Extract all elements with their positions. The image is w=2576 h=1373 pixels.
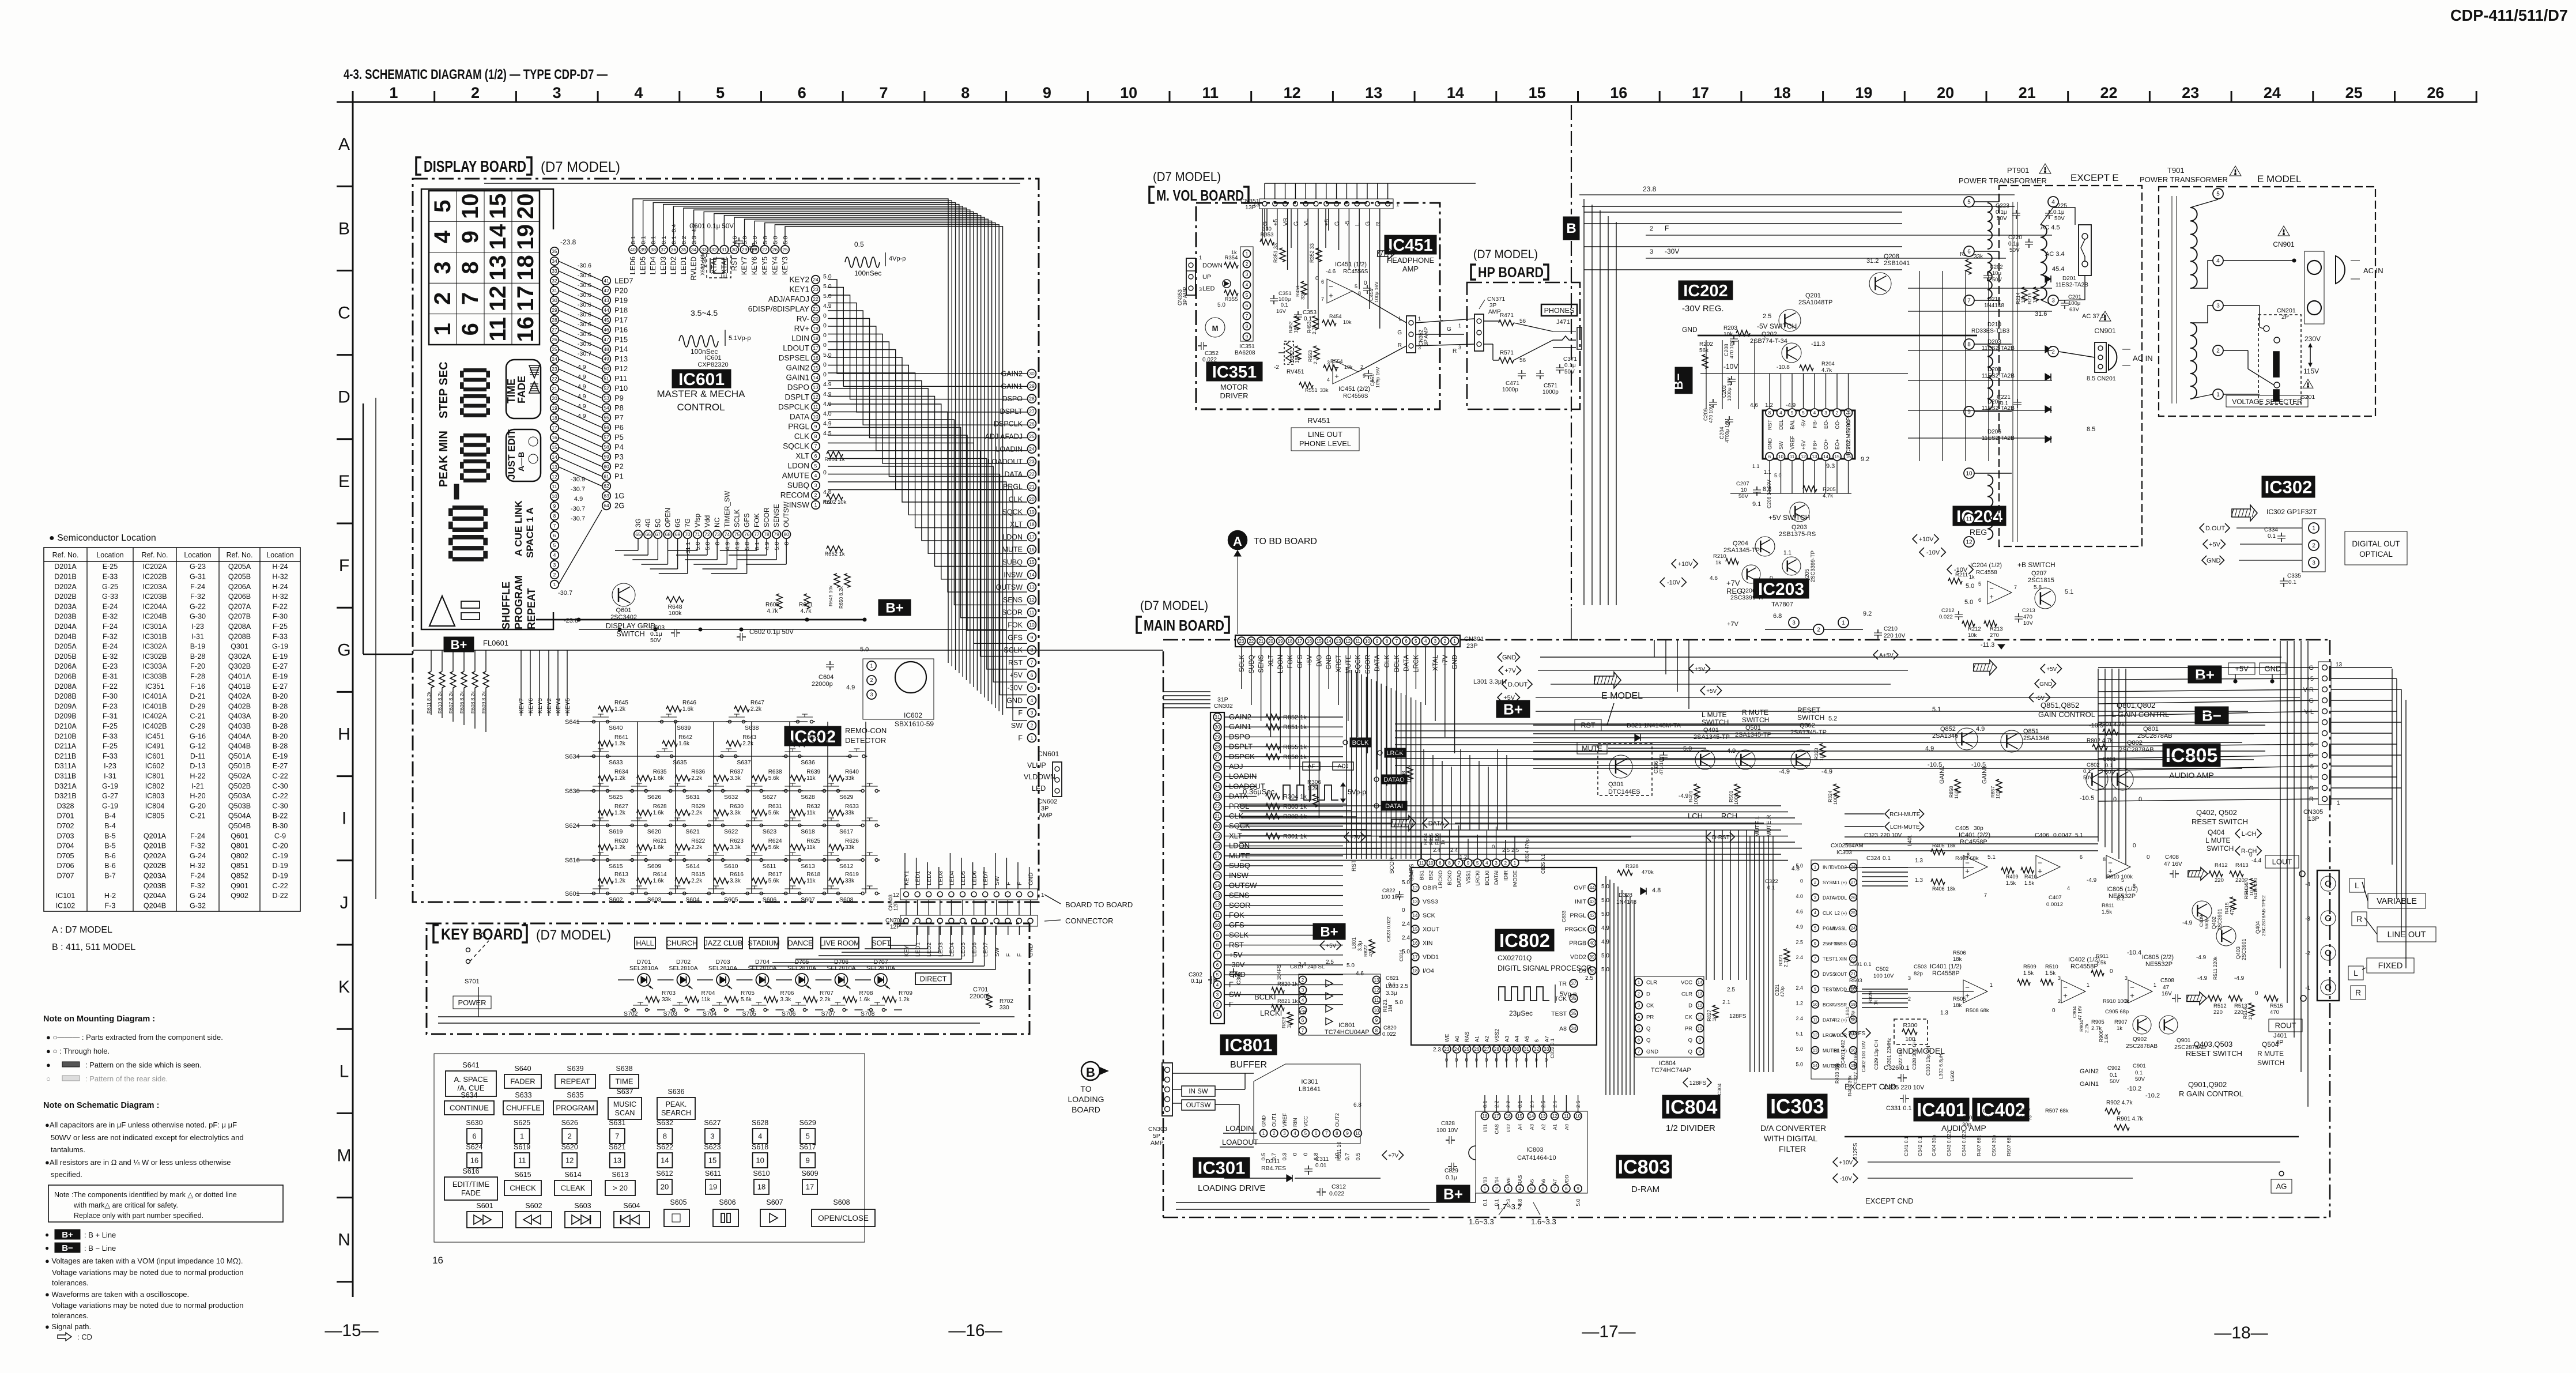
svg-text:C343 0.022: C343 0.022	[1946, 1131, 1952, 1156]
svg-text:470p: 470p	[1779, 986, 1785, 997]
IC601 right pin column 24-1	[812, 276, 820, 284]
svg-text:Location: Location	[184, 551, 211, 559]
svg-text:3.3k: 3.3k	[730, 810, 741, 816]
svg-text:0.1: 0.1	[661, 236, 667, 244]
svg-text:11: 11	[1564, 1114, 1569, 1119]
svg-text:C311: C311	[1315, 1156, 1329, 1163]
svg-text:DIGITL SIGNAL PROCESOR: DIGITL SIGNAL PROCESOR	[1498, 964, 1592, 972]
svg-text:Q801: Q801	[2143, 726, 2159, 733]
svg-text:S616: S616	[462, 1167, 479, 1175]
svg-text:7: 7	[615, 1132, 619, 1141]
svg-text:R824: R824	[1423, 833, 1428, 845]
svg-text:12: 12	[1215, 903, 1220, 908]
svg-text:D311: D311	[1266, 1158, 1280, 1165]
display board outline	[413, 179, 1039, 902]
svg-text:+5: +5	[1323, 219, 1330, 226]
svg-text:10: 10	[1355, 1131, 1360, 1136]
svg-text:0: 0	[2052, 1008, 2055, 1014]
svg-text:Q207B: Q207B	[228, 613, 251, 621]
svg-text:D206B: D206B	[54, 673, 77, 681]
svg-text:-5V SWITCH: -5V SWITCH	[1757, 322, 1797, 330]
svg-text:XLT: XLT	[795, 452, 809, 461]
svg-text:IC804: IC804	[145, 802, 165, 810]
svg-text:5.0: 5.0	[1774, 473, 1782, 478]
svg-text:9.3: 9.3	[1826, 463, 1835, 470]
svg-text:1: 1	[1418, 316, 1421, 322]
svg-text:Q503B: Q503B	[228, 802, 251, 810]
svg-text:3.5~4.5: 3.5~4.5	[691, 308, 718, 318]
svg-text:9: 9	[806, 1156, 810, 1165]
svg-text:RIN: RIN	[1292, 1118, 1298, 1127]
svg-text:V-R: V-R	[2303, 686, 2314, 693]
svg-text:IC202 M5290P-16: IC202 M5290P-16	[1846, 408, 1852, 455]
svg-text:2SC3901: 2SC3901	[2217, 908, 2223, 930]
motor M351	[1205, 318, 1225, 337]
svg-text:CLK: CLK	[794, 432, 809, 441]
wire main board left risers	[1163, 691, 1210, 692]
svg-text:CLK: CLK	[1384, 655, 1391, 668]
svg-text:1.2k: 1.2k	[614, 810, 626, 816]
svg-text:11: 11	[1215, 913, 1220, 918]
switch S705	[751, 1009, 754, 1012]
svg-text:1: 1	[2153, 982, 2156, 988]
svg-text:LED5: LED5	[960, 942, 967, 957]
svg-text:PEAK.: PEAK.	[666, 1100, 687, 1108]
svg-text:D205A: D205A	[54, 643, 77, 651]
svg-text:B : 411, 511 MODEL: B : 411, 511 MODEL	[52, 942, 135, 952]
svg-text:10: 10	[1029, 622, 1035, 628]
svg-text:2: 2	[1246, 262, 1249, 267]
svg-text:4: 4	[1814, 910, 1816, 915]
svg-text:6: 6	[1439, 861, 1442, 866]
svg-text:8.5: 8.5	[2087, 375, 2095, 382]
svg-text:CHUFFLE: CHUFFLE	[506, 1104, 541, 1112]
resistor R637	[714, 775, 729, 781]
svg-text:PRGL: PRGL	[1003, 483, 1023, 491]
TIME FADE indicator	[506, 360, 541, 418]
svg-text:5.0: 5.0	[1601, 911, 1609, 918]
svg-text:—17—: —17—	[1582, 1322, 1635, 1341]
svg-text:18: 18	[552, 415, 557, 421]
svg-text:50V: 50V	[1992, 277, 2002, 283]
svg-text:5.0: 5.0	[1964, 599, 1973, 606]
svg-text:39k: 39k	[1849, 985, 1858, 991]
svg-text:30: 30	[1215, 725, 1220, 730]
svg-text:C833: C833	[1561, 910, 1567, 922]
svg-text:Q403A: Q403A	[228, 712, 251, 721]
svg-text:2.4: 2.4	[1796, 985, 1803, 991]
svg-text:5: 5	[553, 542, 556, 548]
svg-text:JAZZ CLUB: JAZZ CLUB	[704, 940, 743, 948]
svg-text:S706: S706	[782, 1010, 796, 1017]
svg-text:RCH-MUTE: RCH-MUTE	[1889, 812, 1921, 818]
svg-text:INIT: INIT	[1575, 899, 1586, 906]
capacitor C353	[1298, 311, 1299, 315]
svg-text:X601 10M: X601 10M	[700, 252, 706, 276]
svg-text:1.5k: 1.5k	[2006, 880, 2016, 886]
svg-text:DISPLAY BOARD: DISPLAY BOARD	[424, 157, 526, 175]
svg-text:IC451 (2/2): IC451 (2/2)	[1338, 386, 1370, 393]
svg-text:3.3k: 3.3k	[780, 997, 792, 1003]
svg-text:25: 25	[782, 247, 788, 252]
svg-text:FADE: FADE	[516, 376, 527, 403]
svg-text:4: 4	[2216, 258, 2220, 265]
svg-text:1.2k: 1.2k	[614, 878, 626, 884]
IC804 label	[1662, 1095, 1720, 1118]
svg-text:F-32: F-32	[190, 882, 205, 890]
svg-text:C201: C201	[2068, 294, 2081, 300]
svg-text:R826: R826	[1434, 833, 1440, 845]
IC302 label	[2262, 476, 2315, 497]
svg-text:53: 53	[604, 395, 609, 401]
svg-text:R641: R641	[614, 734, 628, 741]
svg-text:7: 7	[2014, 584, 2017, 590]
svg-text:18: 18	[757, 1183, 765, 1191]
svg-text:R: R	[1453, 348, 1457, 354]
R300 CND model	[1894, 1019, 1928, 1044]
svg-text:B+: B+	[1443, 1185, 1463, 1202]
svg-text:5.6k: 5.6k	[768, 810, 780, 816]
svg-text:S703: S703	[663, 1010, 678, 1017]
svg-text:S622: S622	[724, 828, 738, 835]
svg-text:330: 330	[1000, 1005, 1009, 1011]
svg-text:0.1: 0.1	[1304, 316, 1312, 322]
svg-text:IC802: IC802	[1499, 930, 1550, 951]
svg-text:3: 3	[710, 1132, 714, 1141]
svg-text:28: 28	[1215, 745, 1220, 750]
svg-text:VR: VR	[1283, 217, 1289, 226]
svg-text:13: 13	[1413, 899, 1418, 904]
capacitor C209	[1713, 399, 1714, 402]
svg-text:AMP: AMP	[1039, 812, 1053, 819]
svg-text:2G: 2G	[614, 501, 624, 510]
svg-text:25: 25	[2345, 84, 2363, 101]
svg-text:Location: Location	[96, 551, 123, 559]
svg-text:2: 2	[1908, 996, 1911, 1002]
svg-text:F-24: F-24	[190, 832, 205, 840]
svg-text:6DISP/8DISPLAY: 6DISP/8DISPLAY	[748, 305, 809, 314]
svg-text:B-28: B-28	[273, 722, 288, 730]
resistor R619	[829, 878, 844, 884]
svg-text:2: 2	[430, 292, 455, 305]
svg-text:LED7: LED7	[614, 277, 633, 285]
svg-text:GND: GND	[1326, 655, 1333, 670]
svg-text:KEY6: KEY6	[750, 257, 759, 275]
svg-text:LRCKI: LRCKI	[1260, 1009, 1282, 1017]
svg-text:0.3: 0.3	[1281, 1153, 1288, 1160]
svg-text:D-19: D-19	[272, 862, 288, 870]
svg-text:-23.8: -23.8	[564, 617, 578, 624]
waveform 23usec	[1499, 987, 1549, 1001]
svg-text:D-13: D-13	[190, 762, 205, 770]
svg-text:4: 4	[2067, 885, 2070, 891]
svg-text:GAIN2: GAIN2	[2080, 1068, 2099, 1075]
svg-text:B: B	[1566, 221, 1576, 236]
svg-text:L803 2.5: L803 2.5	[1386, 983, 1408, 990]
key board label	[433, 925, 439, 942]
GND bus display	[413, 650, 1038, 651]
switch S611	[746, 859, 749, 862]
svg-text:R907: R907	[2114, 1019, 2128, 1025]
svg-text:ADJ AFADJ: ADJ AFADJ	[985, 433, 1023, 441]
svg-text:7: 7	[1814, 956, 1816, 961]
svg-text:0.022: 0.022	[1939, 614, 1953, 620]
svg-text:DSPSEL: DSPSEL	[779, 354, 810, 363]
svg-text:S617: S617	[799, 1143, 816, 1151]
svg-text:384FS: 384FS	[1276, 964, 1282, 980]
wire bus to audio section	[1533, 725, 2265, 726]
svg-text:5P: 5P	[1153, 1133, 1160, 1140]
svg-text:PHONE LEVEL: PHONE LEVEL	[1299, 439, 1351, 448]
svg-text:100k: 100k	[1832, 794, 1838, 805]
svg-text:2SC3399-TP: 2SC3399-TP	[1810, 550, 1816, 582]
svg-text:Q401: Q401	[1703, 727, 1719, 734]
svg-text:4: 4	[634, 84, 643, 101]
resistor R618	[790, 878, 805, 884]
grid ruler top	[345, 101, 2477, 103]
svg-text:23: 23	[1029, 459, 1035, 465]
svg-text:330: 330	[1262, 226, 1272, 232]
svg-text:FOK: FOK	[1287, 655, 1294, 669]
svg-text:G: G	[337, 640, 350, 659]
svg-text:F: F	[339, 556, 349, 575]
svg-text:S606: S606	[719, 1198, 736, 1206]
svg-text:S634: S634	[461, 1091, 477, 1099]
svg-text:9: 9	[1216, 933, 1219, 938]
svg-text:5: 5	[716, 84, 725, 101]
svg-text:11: 11	[1355, 639, 1360, 644]
svg-text:9: 9	[1467, 861, 1470, 866]
svg-text:S631: S631	[609, 1119, 625, 1127]
svg-text:F-33: F-33	[273, 632, 288, 640]
svg-text:5.0: 5.0	[782, 236, 789, 244]
svg-text:22: 22	[813, 296, 819, 302]
IC351 label	[1206, 362, 1262, 381]
svg-text:P16: P16	[614, 325, 628, 334]
svg-text:0.36μSec: 0.36μSec	[1243, 787, 1275, 796]
resistor R707	[804, 997, 817, 1002]
svg-text:R617: R617	[768, 872, 782, 878]
svg-text:Q502B: Q502B	[228, 782, 251, 790]
svg-text:C508: C508	[2160, 978, 2174, 984]
svg-text:LOADING DRIVE: LOADING DRIVE	[1198, 1183, 1266, 1193]
svg-text:S701: S701	[465, 978, 480, 985]
svg-text:SHUFFLE: SHUFFLE	[500, 582, 512, 629]
svg-text:4.9: 4.9	[1601, 939, 1609, 945]
svg-text:R306: R306	[1307, 779, 1321, 786]
svg-text:S633: S633	[515, 1091, 531, 1099]
svg-text:33: 33	[1544, 1047, 1549, 1052]
svg-text:0: 0	[823, 361, 827, 368]
svg-text:39: 39	[640, 247, 646, 252]
svg-text:Q401B: Q401B	[228, 682, 251, 691]
svg-text:1.5k: 1.5k	[2024, 880, 2035, 886]
svg-text:SENS: SENS	[1003, 596, 1023, 604]
svg-text:C-19: C-19	[272, 852, 288, 860]
svg-text:C602 0.1μ 50V: C602 0.1μ 50V	[749, 629, 794, 636]
svg-text:R902 4.7k: R902 4.7k	[2106, 1100, 2133, 1106]
svg-text:Q207: Q207	[2031, 570, 2047, 577]
svg-text:H-32: H-32	[272, 573, 288, 581]
svg-text:CO-: CO-	[1835, 420, 1840, 429]
wire CN351 risers	[1264, 183, 1265, 199]
svg-text:GND: GND	[2039, 681, 2052, 688]
svg-text:DATA: DATA	[790, 413, 809, 421]
svg-text:10: 10	[552, 493, 557, 499]
svg-text:1k: 1k	[1873, 999, 1879, 1005]
svg-text:R210: R210	[1713, 553, 1726, 560]
svg-text:SWITCH: SWITCH	[616, 630, 644, 638]
svg-text:14: 14	[813, 375, 819, 380]
svg-text:IC202: IC202	[1683, 282, 1728, 300]
PT901 pin 8	[1964, 339, 1974, 349]
svg-text:B-28: B-28	[273, 742, 288, 750]
svg-text:PT901: PT901	[2007, 166, 2029, 175]
svg-text:specified.: specified.	[51, 1170, 82, 1179]
svg-text:D202A: D202A	[54, 583, 77, 591]
FIXED label	[2367, 958, 2414, 973]
svg-text:S619: S619	[609, 828, 623, 835]
svg-text:0.1μ: 0.1μ	[1191, 978, 1202, 985]
svg-text:5.0: 5.0	[1683, 745, 1692, 752]
svg-text:−: −	[1329, 282, 1333, 291]
ROUT box	[2269, 1019, 2302, 1032]
svg-text:100k: 100k	[1953, 788, 1959, 799]
svg-text:C-30: C-30	[272, 782, 288, 790]
svg-text:R571: R571	[1500, 350, 1514, 356]
svg-text:S601: S601	[476, 1202, 493, 1210]
svg-text:16: 16	[432, 1255, 443, 1266]
svg-text:D208B: D208B	[54, 692, 77, 700]
svg-text:1/2 DIVIDER: 1/2 DIVIDER	[1666, 1123, 1715, 1133]
svg-text:4: 4	[1813, 410, 1816, 416]
svg-text:: CD: : CD	[77, 1333, 92, 1341]
svg-text:7: 7	[1984, 892, 1987, 898]
svg-text:2.5: 2.5	[1585, 975, 1593, 982]
svg-text:SCLK: SCLK	[733, 510, 741, 527]
svg-text:0.022: 0.022	[1382, 1031, 1396, 1038]
svg-text:C-22: C-22	[272, 792, 288, 800]
svg-text:1k: 1k	[1286, 1023, 1292, 1028]
RCA jack	[2321, 911, 2336, 926]
svg-text:16: 16	[1029, 546, 1035, 552]
svg-text:B-5: B-5	[104, 842, 116, 850]
svg-text:GND: GND	[1682, 326, 1698, 334]
svg-text:C324: C324	[1866, 855, 1880, 862]
svg-text:7: 7	[1325, 1131, 1328, 1136]
svg-text:0.1: 0.1	[1483, 1199, 1488, 1206]
svg-text:R851 1k: R851 1k	[1283, 724, 1307, 731]
svg-text:0.1μ: 0.1μ	[1564, 363, 1576, 369]
svg-text:23: 23	[1239, 639, 1244, 644]
svg-text:S704: S704	[703, 1010, 717, 1017]
svg-text:Note :The components identif: Note :The components identified by mark …	[54, 1191, 237, 1199]
svg-text:SQCLK: SQCLK	[783, 442, 809, 451]
resistor R633	[829, 810, 844, 816]
svg-text:2.5: 2.5	[1763, 313, 1771, 320]
IC303 label	[1767, 1094, 1827, 1118]
svg-text:+7V: +7V	[1504, 667, 1517, 674]
svg-text:LDON: LDON	[787, 462, 809, 470]
svg-text:0.1: 0.1	[2083, 768, 2091, 775]
svg-text:RST: RST	[1351, 860, 1357, 872]
svg-text:50V: 50V	[650, 637, 661, 644]
wire T901 secondary	[2223, 260, 2294, 261]
svg-text:16: 16	[552, 435, 557, 440]
svg-text:B+: B+	[2195, 666, 2215, 683]
svg-text:33k: 33k	[1974, 254, 1983, 260]
svg-text:F-25: F-25	[103, 722, 118, 730]
svg-text:R416 470: R416 470	[2253, 878, 2258, 899]
svg-text:42: 42	[1590, 913, 1595, 918]
svg-text:R301 1k: R301 1k	[1283, 833, 1307, 840]
svg-text:8.6: 8.6	[1763, 486, 1771, 493]
svg-text:FADE: FADE	[461, 1189, 481, 1197]
svg-text:10: 10	[1813, 1002, 1817, 1007]
svg-text:3: 3	[870, 692, 873, 697]
svg-text:LOUT: LOUT	[2272, 858, 2292, 866]
svg-text:S639: S639	[567, 1065, 583, 1073]
svg-text:G: G	[2309, 665, 2314, 672]
svg-text:R503: R503	[1849, 978, 1862, 984]
svg-text:J471: J471	[1556, 319, 1570, 326]
svg-text:8.5: 8.5	[2087, 426, 2095, 433]
svg-text:16: 16	[513, 316, 538, 342]
svg-text:2: 2	[2312, 543, 2315, 549]
svg-text:● ○——— : Parts extracted fro: ● ○——— : Parts extracted from the compon…	[46, 1033, 223, 1042]
svg-text:B+: B+	[451, 638, 467, 652]
svg-text:5.0: 5.0	[1966, 583, 1974, 590]
svg-text:REPEAT: REPEAT	[526, 588, 537, 629]
svg-text:40: 40	[630, 247, 636, 252]
svg-text:1.7~3.2: 1.7~3.2	[1496, 1202, 1522, 1211]
svg-text:26: 26	[1474, 1047, 1479, 1052]
svg-text:R820 1k: R820 1k	[1277, 981, 1298, 987]
svg-text:IC301B: IC301B	[142, 632, 167, 640]
svg-text:Q504A: Q504A	[228, 812, 251, 820]
svg-text:31: 31	[1524, 1047, 1529, 1052]
svg-text:2SA1048TP: 2SA1048TP	[1798, 299, 1832, 306]
svg-text:EO-: EO-	[1823, 420, 1829, 429]
svg-text:1: 1	[2312, 526, 2315, 532]
svg-text:21: 21	[813, 306, 819, 312]
svg-text:KEY1: KEY1	[789, 285, 809, 294]
svg-text:G-19: G-19	[102, 782, 118, 790]
svg-text:D321 1N4148M-TA: D321 1N4148M-TA	[1627, 722, 1681, 729]
svg-text:1: 1	[1199, 255, 1202, 261]
svg-text:1: 1	[1842, 620, 1845, 627]
svg-text:7: 7	[1458, 861, 1461, 866]
svg-text:S625: S625	[609, 794, 623, 801]
svg-text:1.6~3.3: 1.6~3.3	[1469, 1217, 1494, 1226]
svg-text:IC204A: IC204A	[142, 602, 167, 610]
svg-text:C408: C408	[2165, 854, 2179, 861]
svg-text:2: 2	[1273, 1131, 1276, 1136]
svg-text:E MODEL: E MODEL	[2257, 173, 2302, 184]
svg-text:3: 3	[430, 261, 455, 274]
svg-text:S604: S604	[685, 896, 700, 903]
svg-text:21: 21	[1851, 971, 1855, 976]
svg-text:2: 2	[1817, 627, 1820, 633]
connector CN352 3P	[1406, 316, 1416, 353]
svg-text:SCAN: SCAN	[615, 1109, 635, 1117]
resistor R328 470k	[1617, 870, 1632, 876]
IC802 right pins	[1588, 884, 1596, 892]
svg-text:C328 30p CH: C328 30p CH	[1911, 1040, 1917, 1070]
svg-text:R212: R212	[1968, 626, 1981, 632]
svg-text:4: 4	[553, 552, 556, 558]
svg-text:0.1μ: 0.1μ	[1446, 1175, 1457, 1181]
